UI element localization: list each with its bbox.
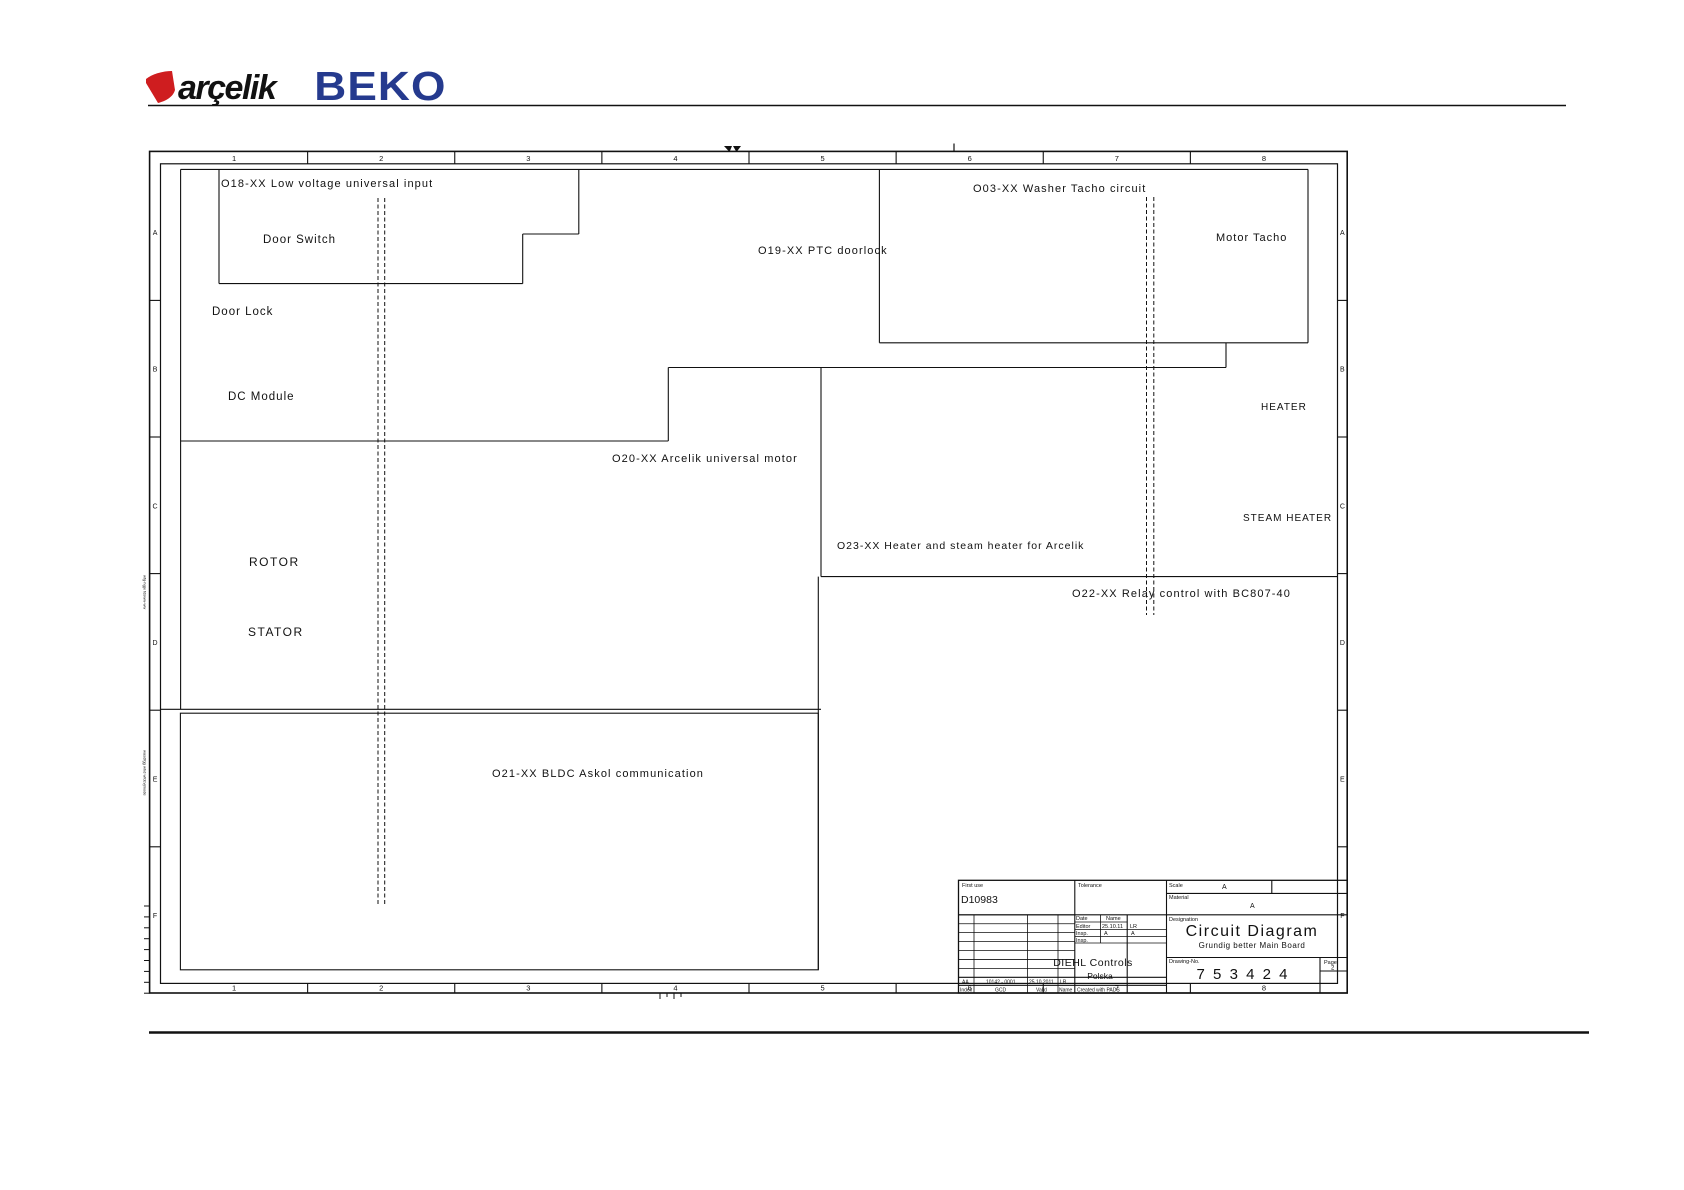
- svg-text:Material: Material: [1169, 895, 1189, 901]
- svg-text:arçelik: arçelik: [178, 69, 279, 107]
- svg-text:10142 - 0001: 10142 - 0001: [986, 980, 1016, 986]
- svg-text:D: D: [153, 640, 158, 647]
- svg-text:wasdfgg whd wfdcvjmode: wasdfgg whd wfdcvjmode: [143, 750, 148, 796]
- svg-text:Created with PADS: Created with PADS: [1077, 988, 1120, 994]
- svg-text:Scale: Scale: [1169, 883, 1183, 889]
- title block frame: [959, 880, 1348, 993]
- svg-text:2: 2: [379, 984, 383, 993]
- svg-text:4: 4: [673, 154, 677, 163]
- svg-text:1: 1: [232, 154, 236, 163]
- block outline O21 box: [180, 713, 818, 970]
- title block date name table: [1075, 921, 1127, 923]
- svg-text:A: A: [1104, 931, 1108, 937]
- svg-text:O22-XX Relay control with: O22-XX Relay control with BC807-40: [1072, 588, 1291, 600]
- svg-text:C: C: [1340, 503, 1345, 510]
- svg-text:B: B: [153, 367, 158, 374]
- footer rule: [149, 1031, 1589, 1034]
- svg-text:Editor: Editor: [1076, 924, 1091, 930]
- svg-text:LR: LR: [1130, 924, 1137, 930]
- fold mark top: [724, 146, 732, 152]
- svg-text:A: A: [1222, 884, 1227, 891]
- svg-text:E: E: [1340, 777, 1345, 784]
- svg-text:5: 5: [820, 984, 824, 993]
- svg-text:4: 4: [673, 984, 677, 993]
- block outline O20 bottom boundary: [161, 708, 822, 710]
- svg-text:Name: Name: [1059, 988, 1073, 994]
- svg-text:25.10.2011: 25.10.2011: [1029, 980, 1054, 986]
- inner frame: [161, 164, 1338, 984]
- svg-text:Valid: Valid: [1036, 988, 1047, 994]
- svg-text:DC Module: DC Module: [228, 391, 295, 403]
- svg-text:D: D: [1340, 640, 1345, 647]
- board edge dashed right: [1147, 197, 1154, 615]
- svg-text:8: 8: [1262, 984, 1266, 993]
- svg-text:Insp.: Insp.: [1076, 938, 1088, 944]
- svg-text:BEKO: BEKO: [314, 63, 446, 109]
- svg-text:Motor Tacho: Motor Tacho: [1216, 232, 1287, 244]
- svg-text:A: A: [1250, 903, 1255, 910]
- svg-text:A: A: [1340, 230, 1345, 237]
- svg-text:Index: Index: [960, 988, 973, 994]
- svg-text:F: F: [153, 913, 157, 920]
- svg-text:O18-XX Low voltage universa: O18-XX Low voltage universal input: [221, 178, 433, 190]
- svg-text:O03-XX Washer Tacho circuit: O03-XX Washer Tacho circuit: [973, 183, 1146, 195]
- block outline O18/O19/doorlock region: [181, 168, 1308, 170]
- svg-text:First use: First use: [962, 883, 983, 889]
- svg-text:Door Lock: Door Lock: [212, 306, 273, 318]
- svg-text:A: A: [153, 230, 158, 237]
- svg-text:Door Switch: Door Switch: [263, 234, 336, 246]
- svg-text:6: 6: [968, 154, 972, 163]
- svg-text:AA: AA: [962, 980, 969, 986]
- svg-text:5: 5: [820, 154, 824, 163]
- block outline O03 tacho box: [878, 169, 880, 342]
- svg-text:1: 1: [232, 984, 236, 993]
- svg-text:Insp.: Insp.: [1076, 931, 1088, 937]
- svg-text:O20-XX Arcelik universal mo: O20-XX Arcelik universal motor: [612, 453, 798, 465]
- margin ruler bottom: [659, 993, 661, 999]
- svg-text:7: 7: [1115, 154, 1119, 163]
- svg-text:STATOR: STATOR: [248, 625, 304, 639]
- svg-text:HEATER: HEATER: [1261, 402, 1307, 413]
- svg-text:F: F: [1340, 913, 1344, 920]
- margin ruler left: [144, 905, 150, 907]
- svg-text:Drawing-No.: Drawing-No.: [1169, 959, 1200, 965]
- svg-text:ROTOR: ROTOR: [249, 555, 300, 569]
- centre mark top: [953, 144, 955, 152]
- svg-text:Circuit Diagram: Circuit Diagram: [1186, 923, 1319, 940]
- svg-text:Name: Name: [1106, 916, 1121, 922]
- outer frame: [150, 151, 1348, 993]
- svg-text:B: B: [1340, 367, 1345, 374]
- svg-text:wfg-hgjx fdsww-ww: wfg-hgjx fdsww-ww: [143, 575, 148, 609]
- svg-text:Tolerance: Tolerance: [1078, 883, 1102, 889]
- title block revision table: [959, 914, 1075, 916]
- board edge dashed left: [378, 198, 385, 905]
- svg-text:LR: LR: [1060, 980, 1067, 986]
- svg-text:DIEHL Controls: DIEHL Controls: [1053, 957, 1133, 969]
- svg-text:25.10.11: 25.10.11: [1102, 924, 1123, 930]
- svg-text:O23-XX Heater and steam he: O23-XX Heater and steam heater for Arcel…: [837, 540, 1084, 552]
- svg-text:2: 2: [379, 154, 383, 163]
- svg-text:3: 3: [526, 984, 530, 993]
- svg-text:3: 3: [526, 154, 530, 163]
- column ruler: [307, 151, 309, 163]
- svg-text:7 5 3 4 2 4: 7 5 3 4 2 4: [1197, 966, 1290, 983]
- svg-text:C: C: [153, 503, 158, 510]
- svg-text:O19-XX PTC doorlock: O19-XX PTC doorlock: [758, 245, 888, 257]
- svg-text:Date: Date: [1076, 916, 1088, 922]
- svg-text:E: E: [153, 777, 158, 784]
- svg-text:A: A: [1131, 931, 1135, 937]
- block outline heater region: [820, 368, 822, 577]
- header rule: [148, 105, 1566, 107]
- svg-text:D10983: D10983: [961, 894, 998, 906]
- svg-text:STEAM HEATER: STEAM HEATER: [1243, 513, 1332, 524]
- svg-text:O21-XX BLDC Askol communica: O21-XX BLDC Askol communication: [492, 768, 704, 780]
- svg-text:8: 8: [1262, 154, 1266, 163]
- block outline O20 left edge: [180, 441, 182, 709]
- svg-text:GCD: GCD: [995, 988, 1007, 994]
- row ruler: [150, 299, 161, 301]
- svg-text:Grundig better Main Board: Grundig better Main Board: [1199, 941, 1306, 950]
- logo arcelik flag: [146, 71, 175, 103]
- svg-text:Polska: Polska: [1087, 971, 1113, 981]
